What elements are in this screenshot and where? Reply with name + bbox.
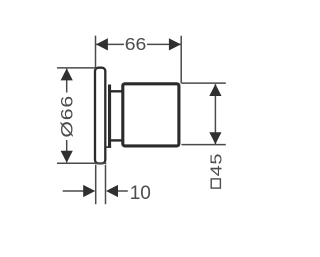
dim sq45: bottom extension line bbox=[182, 144, 226, 146]
svg-text:10: 10 bbox=[130, 183, 151, 204]
dim O66: line top segment bbox=[66, 69, 68, 93]
dim 10: left leader line bbox=[63, 190, 84, 192]
dim O66: top arrow bbox=[61, 68, 73, 80]
escutcheon plate (side view) bbox=[95, 68, 105, 164]
handle knob bbox=[123, 84, 179, 146]
dim sq45: dimension line bbox=[214, 84, 216, 144]
dim 10: left arrow bbox=[83, 185, 95, 197]
dim 66: left extension line bbox=[95, 36, 97, 69]
dim O66: line bottom segment bbox=[66, 140, 68, 162]
dim 10: right arrow bbox=[106, 185, 118, 197]
dim O66: bottom extension line bbox=[57, 162, 106, 164]
dim sq45: top arrow bbox=[209, 84, 221, 96]
dim 66: right arrow bbox=[169, 38, 181, 50]
dim O66: top extension line bbox=[57, 67, 96, 69]
collar bottom cap bbox=[106, 146, 111, 148]
dim sq45: top extension line bbox=[182, 82, 226, 84]
dim 66: line right segment bbox=[147, 43, 181, 45]
svg-text:66: 66 bbox=[125, 34, 147, 54]
neck top edge bbox=[111, 90, 124, 92]
dim 66: left arrow bbox=[96, 38, 108, 50]
dim 10: right leader line bbox=[118, 190, 128, 192]
dim O66: bottom arrow bbox=[61, 151, 73, 163]
svg-text:45: 45 bbox=[207, 153, 225, 177]
collar ring behind handle bbox=[108, 85, 111, 148]
svg-text:Ø66: Ø66 bbox=[58, 95, 77, 138]
dim sq45: label square symbol bbox=[211, 179, 220, 188]
dim sq45: bottom arrow bbox=[209, 132, 221, 144]
dim 66: right extension line bbox=[180, 36, 182, 84]
dim 10: right extension line bbox=[105, 165, 107, 205]
neck bottom edge bbox=[111, 139, 124, 141]
dim 10: left extension line bbox=[95, 165, 97, 205]
dim 66: line left segment bbox=[96, 43, 124, 45]
